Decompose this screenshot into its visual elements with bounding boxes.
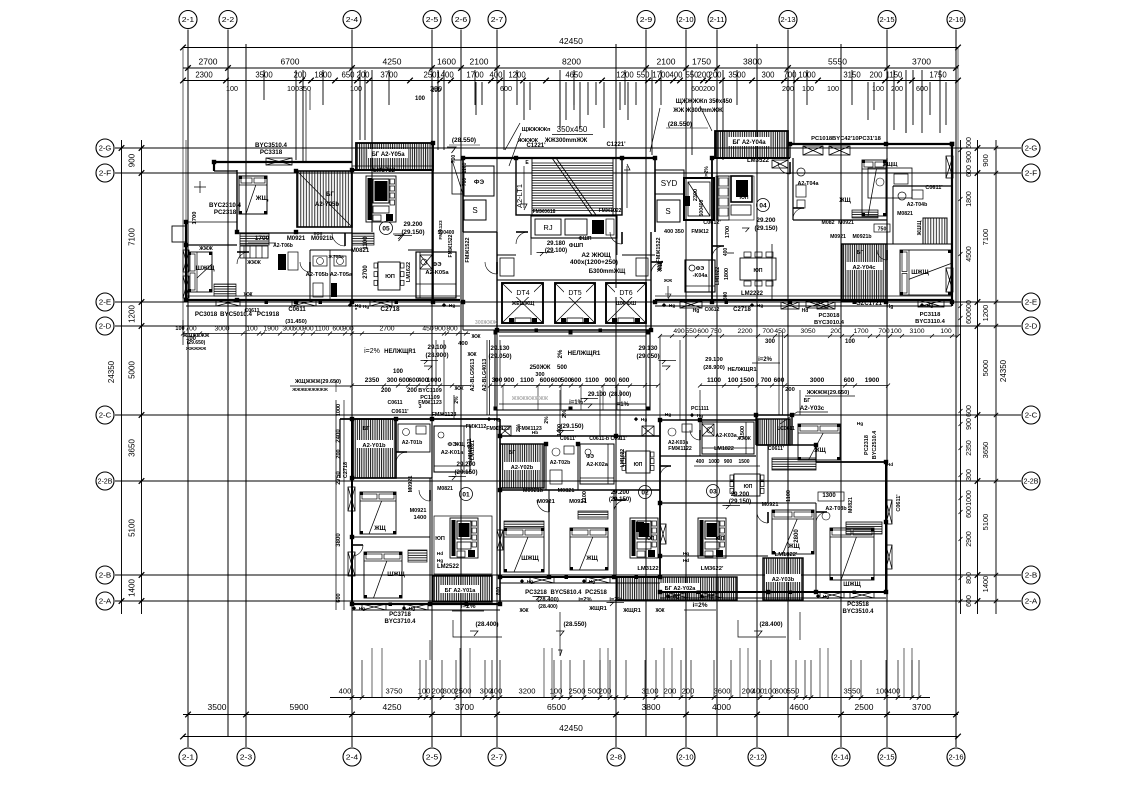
svg-text:2300: 2300 [693,189,699,201]
svg-text:(28.550): (28.550) [668,121,692,128]
svg-text:C0611': C0611' [768,446,784,452]
svg-text:600: 600 [697,328,709,335]
svg-text:1700: 1700 [853,328,868,335]
svg-text:FMЖ1522: FMЖ1522 [448,234,454,257]
svg-text:C0611: C0611 [245,308,260,314]
svg-text:БГ: БГ [326,192,334,198]
unit03 bedroom upper [798,424,840,460]
svg-text:2-2B: 2-2B [1024,477,1039,486]
svg-text:C1221': C1221' [606,142,626,148]
svg-text:2800: 2800 [794,529,800,543]
grid axis circle top 2-9 [637,11,655,29]
svg-text:200: 200 [703,84,715,93]
svg-text:ШЖ ФШ: ШЖ ФШ [616,301,636,307]
svg-text:5900: 5900 [290,702,309,712]
unit01 walls [340,418,500,420]
unit02 circle 02 [639,486,652,499]
svg-text:(31.450): (31.450) [285,319,307,325]
svg-text:600: 600 [966,137,973,149]
svg-text:(29.150): (29.150) [560,423,583,430]
core outline [463,157,655,159]
svg-text:29.200: 29.200 [731,492,750,498]
unit03 dining [734,474,760,496]
svg-text:ЖЩR1: ЖЩR1 [588,606,607,612]
svg-text:1000: 1000 [427,377,442,384]
svg-text:PC3118: PC3118 [920,312,941,318]
svg-text:2-4: 2-4 [346,753,359,762]
grid axis circle right 2-D [1022,317,1040,335]
unit02 balcony hatch A2-Y02b [500,444,544,488]
elevator lobby RJ [531,216,617,238]
grid axis circle right 2-G [1022,139,1040,157]
unit03 bedroom lower [772,510,814,554]
svg-text:M0921b: M0921b [523,488,544,494]
svg-text:1000: 1000 [966,490,973,506]
svg-text:LM1822': LM1822' [775,552,798,558]
svg-text:2-14: 2-14 [834,753,849,762]
svg-text:A2-K01a: A2-K01a [441,450,464,456]
svg-text:3100: 3100 [909,328,924,335]
svg-text:900: 900 [966,151,973,163]
core corridor lines [497,254,516,256]
svg-text:Hg: Hg [697,413,703,419]
svg-text:A2-Y01b: A2-Y01b [362,443,386,449]
bottom dimension tier1 [330,697,930,699]
svg-text:i=2%: i=2% [364,348,380,355]
svg-text:1500: 1500 [738,459,749,465]
left unit extra fixtures [240,246,268,258]
svg-text:Б300mmЖЩ: Б300mmЖЩ [589,269,626,275]
svg-text:БГ: БГ [804,398,811,404]
svg-text:M0821: M0821 [848,497,854,513]
svg-text:ШЖЩ: ШЖЩ [521,556,539,562]
grid axis circle right 2-2B [1022,472,1040,490]
svg-text:100: 100 [845,339,856,345]
svg-text:M0921: M0921 [830,234,846,240]
svg-text:i=2%: i=2% [461,603,476,610]
svg-text:Hg: Hg [669,303,675,309]
svg-text:550: 550 [636,71,650,80]
svg-text:100: 100 [890,328,902,335]
top annotation leaders [505,123,520,150]
svg-text:3750: 3750 [386,687,403,696]
stairwell A2-LT1 [516,158,622,215]
svg-text:900: 900 [128,153,137,167]
svg-text:2%: 2% [558,349,564,358]
svg-text:Hg: Hg [673,594,679,600]
core dark shaft box [684,178,714,220]
svg-text:A2-T04a: A2-T04a [798,181,820,187]
svg-text:700: 700 [762,328,774,335]
svg-text:C2718: C2718 [380,306,400,313]
top-left unit bottom wall [186,299,460,301]
svg-text:2-B: 2-B [1025,571,1038,580]
unit02 kitchen [580,444,614,484]
svg-text:2750: 2750 [336,471,342,485]
unit04 balcony hatch A2-Y04c [842,244,887,301]
svg-text:Hg: Hg [589,579,595,585]
svg-text:3800: 3800 [642,702,661,712]
grid axis circle left 2-2B [96,472,114,490]
bottom leaders [685,612,687,660]
svg-text:НЕЛЖЩR1: НЕЛЖЩR1 [727,367,756,373]
svg-text:500: 500 [557,365,568,371]
grid axis circle top 2-5 [423,11,441,29]
svg-text:5000: 5000 [128,361,137,379]
svg-text:2200: 2200 [737,328,752,335]
svg-text:600: 600 [844,377,855,384]
svg-text:Hg: Hg [683,551,689,557]
svg-text:LM3522: LM3522 [747,158,770,164]
svg-text:1800: 1800 [966,191,973,207]
svg-text:42450: 42450 [559,723,583,733]
svg-text:ЮП: ЮП [385,274,395,280]
svg-text:ЖЖЖ: ЖЖЖ [736,436,751,442]
svg-text:400: 400 [339,687,352,696]
unit04 bedroom right bed [862,160,886,216]
svg-text:Hg: Hg [707,594,713,600]
svg-text:3800: 3800 [743,57,762,67]
top dimension tier3 [183,80,958,82]
svg-text:300: 300 [765,339,776,345]
unit01 balcony hatch A2-Y01b [353,419,396,478]
svg-text:A2-Y03b: A2-Y03b [772,577,795,583]
core room S left [464,200,486,220]
svg-text:FMЖ0618: FMЖ0618 [533,209,556,215]
svg-text:SYD: SYD [661,179,678,188]
svg-text:100: 100 [802,84,814,93]
svg-text:2-2: 2-2 [222,15,235,24]
grid axis circle left 2-D [96,317,114,335]
svg-text:2-B: 2-B [99,571,112,580]
svg-text:PC3218: PC3218 [525,590,547,596]
svg-text:Hg: Hg [409,606,415,612]
unit01 bottom windows [362,604,386,610]
svg-text:(28.400): (28.400) [759,621,782,628]
top dimension tier2 [183,67,958,69]
svg-text:600: 600 [966,506,973,518]
svg-text:БГ A2-Y04a: БГ A2-Y04a [732,140,766,146]
core extra walls [462,232,464,330]
svg-text:1100: 1100 [462,162,468,173]
svg-text:2-1: 2-1 [182,753,195,762]
svg-text:i=1%: i=1% [569,400,584,406]
unit02 living [630,518,658,558]
svg-text:3800: 3800 [336,533,342,547]
svg-text:BYC2310.4: BYC2310.4 [209,202,242,209]
svg-text:600: 600 [619,377,630,384]
grid axis circle bottom 2-12 [748,748,766,766]
grid axis circle bottom 2-14 [832,748,850,766]
svg-text:ЖЖЖЖ(29.650): ЖЖЖЖ(29.650) [806,390,850,396]
svg-text:600: 600 [966,312,973,324]
more mid band leaders [499,340,501,385]
svg-text:A2-K05a: A2-K05a [425,270,449,276]
svg-text:3600: 3600 [714,687,731,696]
grid axis circle left 2-C [96,406,114,424]
svg-text:Hg: Hg [857,421,863,427]
svg-text:ЮП: ЮП [646,536,655,542]
svg-text:6500: 6500 [547,702,566,712]
svg-text:1700: 1700 [725,226,731,238]
svg-text:2100: 2100 [657,57,676,67]
svg-text:04: 04 [759,203,767,210]
svg-text:3700: 3700 [455,702,474,712]
svg-text:2-10: 2-10 [679,753,694,762]
svg-text:1000: 1000 [708,459,719,465]
svg-text:100: 100 [550,687,563,696]
unit04 bedroom bath fixtures [797,168,805,176]
svg-text:400: 400 [752,687,765,696]
vertical grid lines [187,30,189,748]
unit05 dining table [378,262,400,290]
grid axis circle left 2-F [96,164,114,182]
svg-text:400: 400 [696,459,705,465]
grid axis circle bottom 2-7 [488,748,506,766]
top dim extension cluster left [295,90,297,110]
svg-text:ФШП: ФШП [579,236,592,242]
svg-text:200: 200 [431,88,442,94]
svg-text:2350: 2350 [365,377,380,384]
svg-text:BYC3010.4: BYC3010.4 [814,320,845,326]
svg-text:1400: 1400 [436,71,454,80]
svg-text:LM3122: LM3122 [637,566,658,572]
svg-text:i=2%: i=2% [693,602,708,609]
svg-text:2-D: 2-D [1025,322,1038,331]
grid axis circle bottom 2-8 [607,748,625,766]
unit03 bath left [668,428,676,436]
roof drain leaders mid-left [336,385,352,387]
svg-text:-K04a: -K04a [693,273,709,279]
svg-text:5550: 5550 [828,57,847,67]
svg-text:600: 600 [571,377,582,384]
svg-text:FMЖ1522: FMЖ1522 [465,237,471,262]
grid axis circle top 2-1 [179,11,197,29]
density pass: unit03 kitchen window [702,424,714,436]
svg-text:900: 900 [724,459,733,465]
svg-text:400: 400 [489,71,503,80]
svg-text:8200: 8200 [562,57,581,67]
roof terrace box below core [495,332,650,410]
svg-text:ШЖЩ: ШЖЩ [911,270,929,276]
svg-text:ЖЩ: ЖЩ [657,261,663,273]
svg-text:900: 900 [981,154,990,167]
unit03 bottom windows [666,592,688,598]
svg-text:2%: 2% [516,424,522,432]
svg-text:2-1: 2-1 [182,15,195,24]
svg-text:ЖЩЖЕЖЖ: ЖЩЖЕЖЖ [182,333,210,339]
svg-text:БГ: БГ [857,250,864,256]
svg-text:800: 800 [966,572,973,584]
svg-text:2-16: 2-16 [949,753,964,762]
svg-text:ЖЖЖЕЖЖЖЖЖ: ЖЖЖЕЖЖЖЖЖ [291,387,328,392]
unit02 dining [626,451,650,473]
svg-text:1100: 1100 [585,377,599,384]
svg-text:700: 700 [761,377,772,384]
unit05 walls [352,169,433,171]
svg-text:BYC3110.4: BYC3110.4 [915,319,945,325]
svg-text:2350: 2350 [966,440,973,456]
unit02 master bedroom [504,528,544,572]
svg-text:PC2318: PC2318 [864,435,870,455]
svg-text:FMЖ112: FMЖ112 [466,424,487,430]
svg-text:2700: 2700 [199,57,218,67]
svg-text:BYC3510.4: BYC3510.4 [842,609,874,615]
svg-text:ЖЖ: ЖЖ [470,334,481,340]
unit02 door arcs [537,500,549,512]
unit05 top balcony hatch A2-Y05a [356,143,433,170]
unit01 living tv cluster [434,516,492,574]
svg-text:2500: 2500 [855,702,874,712]
grid axis circle top 2-6 [452,11,470,29]
svg-text:29.200: 29.200 [404,221,423,228]
svg-text:1400: 1400 [128,579,137,597]
column markers at wall junctions [212,160,216,164]
svg-text:PC2518: PC2518 [585,590,607,596]
svg-text:100: 100 [876,687,889,696]
unit03 living tv [698,518,726,558]
unit03 kitchen A2-K03a [702,422,754,454]
unit03 walls [660,419,756,421]
core SYD room [655,170,684,194]
unit01 balcony A2-Y01a [433,576,492,602]
svg-text:Hg: Hg [693,308,700,314]
svg-text:БГ A2-Y01a: БГ A2-Y01a [445,588,477,594]
svg-text:2-9: 2-9 [640,15,653,24]
middle roof chain left [352,385,470,387]
svg-text:200: 200 [381,388,392,394]
svg-text:700: 700 [185,326,197,333]
svg-text:1200: 1200 [981,305,990,322]
elevator DT4 [502,283,543,323]
svg-text:ЖЖ: ЖЖ [654,608,665,614]
unit02 walls [500,435,660,437]
svg-text:НЕЛЖЩR1: НЕЛЖЩR1 [384,349,416,355]
svg-text:Hb: Hb [532,430,538,436]
svg-text:4000: 4000 [712,702,731,712]
svg-text:03: 03 [709,489,717,496]
svg-text:(28.900): (28.900) [425,352,448,359]
svg-text:A2-T03b: A2-T03b [825,506,847,512]
svg-text:PC1018BYC42'10PC31'18: PC1018BYC42'10PC31'18 [811,136,882,142]
svg-text:C0611: C0611 [288,307,306,313]
svg-text:A2-T01b: A2-T01b [402,440,422,446]
horizontal grid lines [115,147,1021,149]
unit01 door arcs [396,452,407,463]
svg-text:A2-T02b: A2-T02b [550,460,570,466]
svg-text:3650: 3650 [981,442,990,459]
unit03 master bedroom [830,528,874,580]
svg-text:ЖЕШЖЩ: ЖЕШЖЩ [511,301,535,307]
grid axis circle top 2-13 [779,11,797,29]
svg-text:DT4: DT4 [516,290,529,297]
svg-text:3650: 3650 [128,439,137,457]
svg-text:C0611-b C0911': C0611-b C0911' [589,436,627,442]
svg-text:M0821: M0821 [437,486,453,492]
svg-text:400x(1200+250): 400x(1200+250) [570,259,618,266]
svg-text:200: 200 [664,687,677,696]
svg-text:ФЭ: ФЭ [474,179,485,186]
svg-text:2-E: 2-E [1025,298,1038,307]
svg-text:ШЖЩ: ШЖЩ [387,572,405,578]
svg-text:300: 300 [966,469,973,481]
building edge extension lines [182,48,184,333]
svg-text:100: 100 [418,687,431,696]
svg-text:3700: 3700 [912,702,931,712]
svg-text:750: 750 [710,328,722,335]
svg-text:FMЖ1123: FMЖ1123 [486,426,510,432]
unit04 balcony hatch top [715,131,788,158]
svg-text:400: 400 [669,71,683,80]
svg-text:350x450: 350x450 [557,125,588,134]
svg-text:700: 700 [462,178,468,187]
svg-text:5100: 5100 [981,514,990,531]
svg-text:DT6: DT6 [619,290,632,297]
svg-text:200: 200 [869,71,883,80]
svg-text:PC3518: PC3518 [847,602,869,608]
svg-text:C0611': C0611' [925,185,943,191]
svg-text:100: 100 [940,328,952,335]
left extension lines [122,147,184,149]
svg-text:1400: 1400 [981,576,990,593]
svg-text:800: 800 [446,326,458,333]
grid axis circle top 2-11 [708,11,726,29]
grid axis circle left 2-E [96,293,114,311]
svg-text:24350: 24350 [999,359,1008,382]
svg-text:C0611': C0611' [391,409,409,415]
grid axis circle bottom 2-5 [423,748,441,766]
svg-text:1100: 1100 [315,326,330,333]
svg-text:300: 300 [761,71,775,80]
svg-text:ЖЩ: ЖЩ [787,544,800,550]
svg-text:S: S [472,206,477,215]
svg-text:200: 200 [407,388,418,394]
svg-text:ФЭ: ФЭ [432,262,441,268]
svg-text:ЖЩR1: ЖЩR1 [622,608,641,614]
svg-text:2-E: 2-E [99,298,112,307]
unit04 walls [712,157,790,159]
grid axis circle top 2-7 [488,11,506,29]
svg-text:A2-T06b: A2-T06b [273,243,293,249]
svg-text:ЖЩЩ: ЖЩЩ [882,162,899,168]
svg-text:650: 650 [341,71,355,80]
svg-text:2-3: 2-3 [240,753,253,762]
svg-text:5100: 5100 [128,519,137,537]
svg-text:БГ: БГ [509,450,516,456]
svg-text:i=2%: i=2% [704,166,710,178]
svg-text:200: 200 [599,687,612,696]
svg-text:M0921: M0921 [537,499,556,505]
unit02 tv extra [636,522,644,532]
svg-text:(28.900): (28.900) [703,365,725,371]
svg-text:05: 05 [382,226,390,233]
svg-text:200: 200 [336,449,342,458]
svg-text:M0921b: M0921b [852,234,871,240]
grid axis circle top 2-16 [947,11,965,29]
svg-text:3000: 3000 [214,326,229,333]
grid axis circle right 2-C [1022,406,1040,424]
svg-text:600: 600 [500,84,512,93]
svg-text:(28.400): (28.400) [475,621,498,628]
svg-text:ЖЖЖ: ЖЖЖ [198,246,213,252]
svg-text:2-F: 2-F [1025,169,1038,178]
svg-text:1700: 1700 [255,235,270,242]
svg-text:Hg: Hg [355,303,361,309]
svg-text:ЖT05a: ЖT05a [327,254,344,260]
svg-text:2500: 2500 [455,687,472,696]
svg-text:5000: 5000 [981,360,990,377]
svg-text:1750: 1750 [929,71,947,80]
